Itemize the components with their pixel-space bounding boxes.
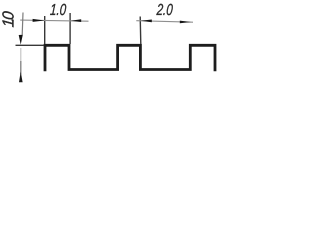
arrowhead pointing right bbox=[180, 21, 191, 24]
label 2.0 bbox=[155, 0, 173, 18]
dimension line bbox=[136, 21, 193, 23]
profile outline (corrugated sheet) bbox=[45, 45, 215, 71]
arrowhead pointing left at right ext line bbox=[71, 19, 82, 22]
arrowhead pointing down at top surface bbox=[19, 35, 23, 45]
rotated label 1.0 bbox=[0, 10, 17, 28]
upper dimension line bbox=[21, 13, 24, 35]
extension line (top surface, horizontal) bbox=[16, 44, 45, 46]
arrowhead pointing right at left ext line bbox=[33, 19, 45, 22]
svg-text:1.0: 1.0 bbox=[0, 10, 17, 28]
extension line left bbox=[44, 16, 46, 44]
arrowhead pointing up at bottom surface bbox=[19, 72, 23, 83]
extension line right bbox=[69, 13, 71, 44]
label 1.0 bbox=[50, 0, 67, 18]
svg-text:2.0: 2.0 bbox=[155, 0, 173, 18]
arrowhead pointing left bbox=[141, 20, 152, 23]
extension line left bbox=[139, 17, 142, 45]
dimension line bbox=[20, 20, 88, 21]
lower dimension line bbox=[20, 48, 22, 61]
svg-text:1.0: 1.0 bbox=[50, 0, 67, 18]
